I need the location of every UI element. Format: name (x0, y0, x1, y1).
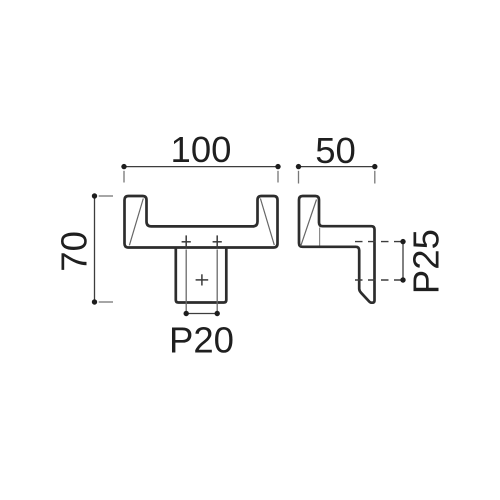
svg-text:70: 70 (53, 231, 94, 272)
front view stem block (176, 248, 227, 303)
dimension 70 line (94, 196, 96, 302)
dimension 100 left stub (123, 171, 125, 183)
dimension 100 line (124, 166, 278, 168)
front view left arm thin diagonal (129, 199, 143, 246)
screw cross left (182, 235, 191, 248)
front view stem hidden line right (216, 250, 218, 314)
dimension 70 bottom dot (92, 299, 97, 304)
dimension P20 line (186, 313, 217, 315)
dimension 50 right stub (374, 171, 376, 184)
svg-text:P25: P25 (406, 229, 447, 294)
dimension 100 left dot (121, 164, 126, 169)
center dashed line lower (355, 279, 403, 281)
dimension P20 right dot (215, 311, 220, 316)
dimension P25 bottom dot (400, 277, 405, 282)
svg-text:100: 100 (171, 129, 232, 170)
front view right arm thin diagonal (260, 199, 274, 246)
front view U-channel outline (125, 196, 278, 248)
dimension 70 top dot (92, 193, 97, 198)
side view thin diagonal (301, 200, 317, 246)
dimension P25 line (402, 242, 404, 280)
dimension 50 line (299, 166, 375, 168)
side view thin junction edge (319, 228, 321, 246)
front view stem hidden line left (185, 250, 187, 314)
dimension 100 right stub (277, 171, 279, 183)
dimension 70 top stub (99, 195, 113, 197)
dimension 50 left dot (296, 164, 301, 169)
dimension 50 right dot (372, 164, 377, 169)
dimension 70 bottom stub (99, 301, 113, 303)
screw cross center (196, 274, 209, 285)
dimension 100 right dot (275, 164, 280, 169)
dimension P25 top dot (400, 239, 405, 244)
center dashed line upper (355, 241, 403, 243)
side view hook outline (299, 196, 375, 303)
svg-text:50: 50 (315, 130, 356, 171)
screw cross right (213, 235, 222, 248)
dimension P20 left dot (184, 311, 189, 316)
dimension 50 left stub (298, 171, 300, 184)
svg-text:P20: P20 (169, 319, 234, 360)
